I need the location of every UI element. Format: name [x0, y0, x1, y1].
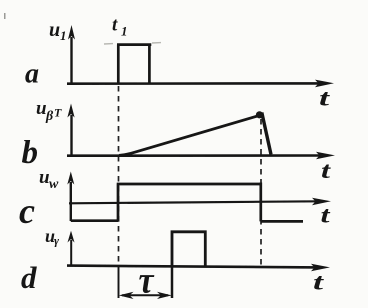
horizontal t-axis row d	[67, 264, 330, 272]
svg-text:τ: τ	[139, 260, 155, 302]
vertical axis row d	[68, 231, 75, 266]
svg-text:d: d	[21, 260, 37, 295]
ramp falling edge row b	[262, 113, 271, 155]
svg-text:u: u	[49, 19, 60, 41]
tau left tick	[118, 267, 120, 298]
output pulse row d	[172, 232, 205, 266]
vertical axis row c	[67, 172, 74, 222]
dashed line at ramp end (x=261)	[260, 119, 262, 265]
svg-text:1: 1	[121, 24, 128, 39]
svg-text:t: t	[321, 158, 331, 183]
svg-text:1: 1	[60, 28, 67, 43]
svg-text:a: a	[25, 59, 39, 90]
svg-text:t: t	[112, 15, 118, 36]
svg-text:t: t	[319, 86, 330, 111]
svg-text:c: c	[19, 191, 35, 231]
horizontal t-axis row a	[67, 80, 334, 88]
dashed line at t1 (x=118.5)	[118, 86, 120, 265]
svg-text:t: t	[321, 203, 331, 228]
horizontal t-axis row b	[67, 152, 335, 160]
faint dash right of pulse top	[152, 42, 161, 44]
pulse waveform row a	[117, 45, 151, 84]
vertical axis row a	[68, 25, 75, 84]
tau double arrow	[119, 292, 172, 299]
svg-text:b: b	[22, 135, 39, 171]
sawtooth ramp row b	[119, 116, 258, 155]
peak dot row b	[256, 111, 263, 118]
vertical axis row b	[67, 104, 74, 157]
label u_gamma (v-axis label, row d)	[45, 226, 59, 248]
svg-text:β: β	[45, 109, 54, 124]
svg-text:u: u	[36, 98, 47, 119]
stray scan mark top-left	[4, 13, 6, 19]
svg-text:γ: γ	[54, 234, 59, 248]
svg-text:t: t	[313, 270, 324, 295]
svg-text:w: w	[49, 177, 59, 192]
label u1 (v-axis label, row a)	[49, 19, 67, 43]
horizontal t-axis row c	[69, 198, 331, 206]
svg-text:T: T	[54, 106, 62, 120]
faint dash left of pulse top	[104, 43, 113, 45]
label u_w (v-axis label, row c)	[39, 167, 59, 192]
t1 label	[112, 15, 128, 39]
tau right tick (pulse edge extension)	[171, 266, 174, 298]
gate waveform row c	[71, 183, 303, 222]
label u_bT (v-axis label, row b)	[36, 98, 62, 124]
svg-text:u: u	[39, 167, 50, 188]
